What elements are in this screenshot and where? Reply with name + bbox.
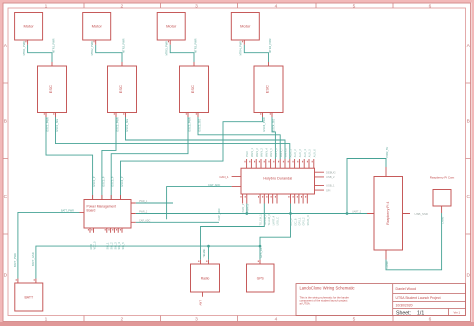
svg-text:ESC1_PWR: ESC1_PWR [46,117,50,131]
svg-text:at UTSA.: at UTSA. [300,302,311,306]
svg-text:MTR3_PWR: MTR3_PWR [164,41,168,56]
svg-text:PWR_5V: PWR_5V [385,147,389,158]
svg-text:5: 5 [353,3,356,9]
svg-text:ESC3_SIG: ESC3_SIG [198,119,202,132]
svg-text:AUX_4: AUX_4 [304,149,307,158]
svg-text:BATT_PWR: BATT_PWR [61,210,74,213]
svg-text:4: 4 [275,317,278,323]
svg-text:Sheet:: Sheet: [396,310,411,316]
svg-text:6: 6 [429,317,432,323]
svg-text:GPS_1: GPS_1 [299,217,302,226]
svg-text:GPS: GPS [257,277,265,281]
svg-text:SBUS_O: SBUS_O [307,215,310,225]
svg-text:1: 1 [45,317,48,323]
svg-text:ESC: ESC [265,85,270,93]
svg-text:ESC4_SIG: ESC4_SIG [272,119,276,132]
svg-text:Holybro Durandal: Holybro Durandal [263,177,292,181]
svg-text:B: B [4,118,7,124]
svg-text:Daniel Wood: Daniel Wood [396,287,417,291]
svg-text:MAIN_6: MAIN_6 [275,148,278,158]
svg-text:Radio: Radio [201,277,210,281]
svg-text:MTR2_PWR: MTR2_PWR [90,41,94,56]
svg-text:I2C_A: I2C_A [290,218,293,225]
svg-text:B: B [467,118,470,124]
svg-text:Raspberry Pi Cam: Raspberry Pi Cam [430,176,455,180]
svg-text:Board: Board [87,208,96,212]
svg-text:SIG_4: SIG_4 [118,242,121,250]
svg-text:MTR4_PWR: MTR4_PWR [268,38,272,53]
svg-text:MTR4_PWR: MTR4_PWR [239,41,243,56]
svg-text:D: D [4,272,8,278]
svg-text:AUX_1: AUX_1 [289,149,292,158]
svg-text:AUX_6: AUX_6 [313,149,316,158]
svg-text:C: C [466,194,470,200]
svg-text:CAP_ADC: CAP_ADC [208,183,220,187]
svg-text:ESC: ESC [48,85,53,93]
svg-text:10/30/2020: 10/30/2020 [396,303,413,307]
svg-text:ESC4_PWR: ESC4_PWR [262,117,266,131]
svg-text:UART_4: UART_4 [272,215,275,225]
svg-text:BATT_PWR: BATT_PWR [13,253,17,267]
svg-text:AUX_3: AUX_3 [299,149,302,158]
svg-text:Ver 1: Ver 1 [454,310,461,314]
svg-text:2: 2 [120,3,123,9]
svg-text:PWR_1: PWR_1 [242,203,245,212]
svg-text:GPS_RX: GPS_RX [259,247,263,258]
svg-text:CAP_ADC: CAP_ADC [217,208,221,220]
svg-text:UTSA Student Launch Project: UTSA Student Launch Project [396,296,441,300]
svg-text:1: 1 [45,3,48,9]
svg-text:CAM0: CAM0 [440,216,444,224]
svg-text:AUX_5: AUX_5 [309,149,312,158]
svg-text:BATT: BATT [24,296,34,300]
svg-text:ANT: ANT [199,300,203,306]
svg-text:3: 3 [195,3,198,9]
svg-text:SIG_1: SIG_1 [107,242,110,250]
svg-text:ESC: ESC [190,85,195,93]
svg-text:SPI: SPI [326,188,331,192]
svg-text:2: 2 [120,317,123,323]
svg-text:D: D [466,272,470,278]
svg-text:MTR2_PWR: MTR2_PWR [122,38,126,53]
svg-text:ESC1_P: ESC1_P [92,176,96,186]
svg-text:USB_2: USB_2 [326,175,335,179]
svg-text:TELEM_3: TELEM_3 [268,214,271,226]
svg-text:PWR_1: PWR_1 [139,200,148,203]
svg-text:MAIN_2: MAIN_2 [256,148,259,158]
svg-text:5: 5 [353,317,356,323]
svg-text:MTR3_PWR: MTR3_PWR [194,38,198,53]
svg-text:TELEM_2: TELEM_2 [264,214,267,226]
svg-text:ESC2_PWR: ESC2_PWR [116,117,120,131]
svg-text:ESC4_P: ESC4_P [120,176,124,186]
svg-text:MAIN_3: MAIN_3 [261,148,264,158]
svg-text:SIG_5: SIG_5 [122,242,125,250]
svg-text:Motor: Motor [240,24,251,29]
svg-text:BATT_GND: BATT_GND [31,252,35,266]
svg-text:ESC1_SIG: ESC1_SIG [55,119,59,132]
svg-text:ESC3_P: ESC3_P [111,176,115,186]
svg-text:Raspberry Pi 4: Raspberry Pi 4 [386,202,390,225]
svg-text:Motor: Motor [92,24,103,29]
svg-text:TELEM1: TELEM1 [204,248,206,258]
svg-text:PWR: PWR [246,151,249,157]
svg-text:MAIN_5: MAIN_5 [270,148,273,158]
svg-text:Motor: Motor [166,24,177,29]
svg-text:I2C_B: I2C_B [294,218,297,225]
svg-text:6: 6 [429,3,432,9]
svg-text:CAN_1: CAN_1 [219,175,229,179]
svg-text:CAP_ADC: CAP_ADC [139,219,151,222]
svg-text:MAIN_7: MAIN_7 [280,148,283,158]
svg-text:VCC_5: VCC_5 [93,241,96,250]
svg-text:AUX_2: AUX_2 [294,149,297,158]
svg-text:SIG_3: SIG_3 [114,242,117,250]
svg-text:ESC2_SIG: ESC2_SIG [125,119,129,132]
svg-text:LandoClone Wiring Schematic: LandoClone Wiring Schematic [300,286,355,291]
svg-text:TELEM_1: TELEM_1 [260,214,263,226]
svg-text:MAIN_8: MAIN_8 [285,148,288,158]
svg-text:3: 3 [195,317,198,323]
svg-text:USB_1: USB_1 [326,184,335,188]
svg-text:UART_2: UART_2 [352,210,362,213]
svg-text:PWR_2: PWR_2 [139,211,148,214]
svg-text:MTR1_PWR: MTR1_PWR [52,38,56,53]
svg-text:USB_SSD: USB_SSD [415,212,429,216]
svg-text:DEBUG: DEBUG [326,170,336,174]
svg-text:USB_C: USB_C [277,217,280,226]
svg-text:1/1: 1/1 [417,310,424,316]
svg-text:PWR_2: PWR_2 [246,203,249,212]
svg-text:MTR1_PWR: MTR1_PWR [22,41,26,56]
svg-text:C: C [4,194,8,200]
svg-text:SIG_2: SIG_2 [111,242,114,250]
svg-text:MAIN_4: MAIN_4 [265,148,268,158]
svg-text:ESC3_PWR: ESC3_PWR [188,117,192,131]
svg-text:ESC2_P: ESC2_P [101,176,105,186]
svg-text:ESC: ESC [118,85,123,93]
svg-text:GPS_2: GPS_2 [303,217,306,226]
svg-text:4: 4 [275,3,278,9]
svg-text:Motor: Motor [23,24,34,29]
svg-text:MAIN_1: MAIN_1 [251,148,254,158]
svg-text:CAM0: CAM0 [385,261,389,269]
